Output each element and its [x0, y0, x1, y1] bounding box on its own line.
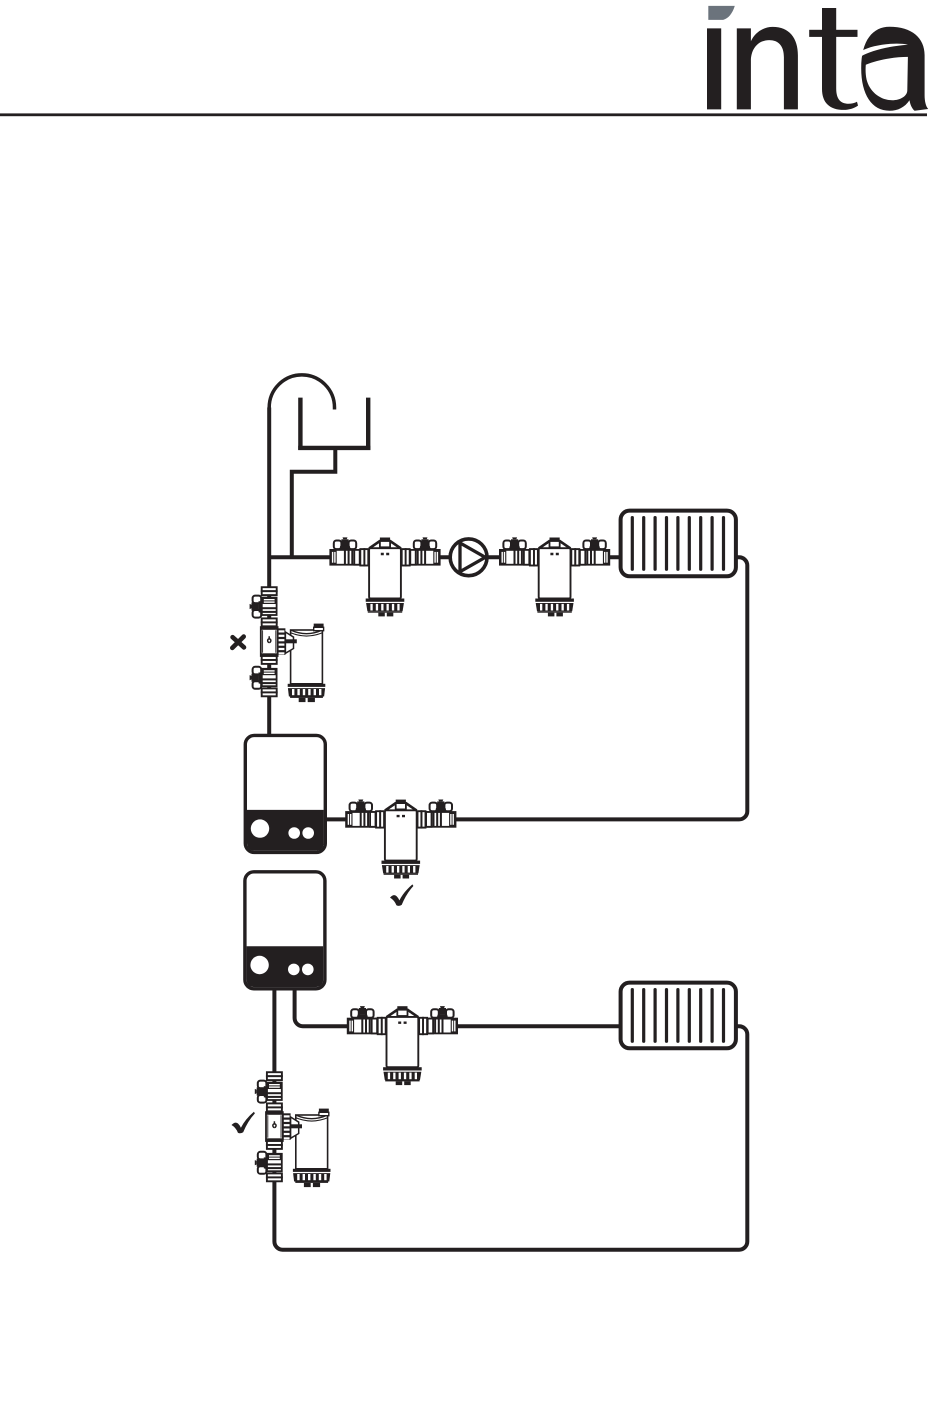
- wire: radiator 1 drop and return line to boiler 1: [325, 557, 747, 819]
- wire: vent arc over tundish: [269, 375, 334, 410]
- radiator 2: [621, 983, 736, 1049]
- vertical filter assembly V2 on boiler 2 return (correct position): [255, 1072, 331, 1187]
- logo letter i: [707, 28, 721, 109]
- check mark 2: [232, 1112, 255, 1134]
- wire: flow line to radiator 1: [269, 555, 620, 559]
- wire: boiler 2 right pipe to radiator 2: [295, 988, 621, 1026]
- check mark 1: [390, 884, 413, 906]
- boiler 1: [245, 735, 325, 852]
- radiator 1: [621, 511, 736, 577]
- logo letter a: [861, 27, 928, 111]
- logo i accent flag: [708, 6, 735, 20]
- logo letter n: [737, 27, 798, 110]
- logo letter t: [822, 8, 858, 110]
- wire: boiler 2 left pipe down, bottom return, up to radiator 2 outlet: [274, 988, 747, 1249]
- cross mark: [232, 637, 244, 648]
- vertical filter assembly V1 on riser (wrong position): [250, 587, 326, 702]
- filter assembly F1 on flow line: [330, 537, 439, 616]
- filter assembly F4 on boiler 2 flow: [348, 1006, 457, 1085]
- filter assembly F2 before radiator 1: [500, 537, 609, 616]
- header rule: [0, 113, 927, 116]
- pump P1: [450, 539, 487, 576]
- filter assembly F3 on boiler 1 return: [346, 800, 455, 879]
- wire: riser from boiler 1 up to vent arc: [267, 408, 271, 736]
- tundish vessel: [298, 398, 370, 450]
- boiler 2: [245, 872, 325, 989]
- wire: tundish outlet to flow line: [292, 449, 336, 557]
